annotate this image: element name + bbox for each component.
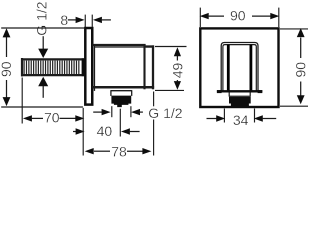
svg-text:49: 49 <box>169 63 185 79</box>
svg-text:8: 8 <box>60 12 68 28</box>
svg-text:G 1/2: G 1/2 <box>34 1 50 35</box>
svg-text:90: 90 <box>230 8 246 24</box>
svg-text:78: 78 <box>111 144 127 160</box>
svg-text:40: 40 <box>97 123 113 139</box>
svg-text:34: 34 <box>233 112 249 128</box>
svg-text:G 1/2: G 1/2 <box>148 105 182 121</box>
svg-text:90: 90 <box>0 61 14 77</box>
svg-text:90: 90 <box>292 62 308 78</box>
svg-text:70: 70 <box>44 110 60 126</box>
